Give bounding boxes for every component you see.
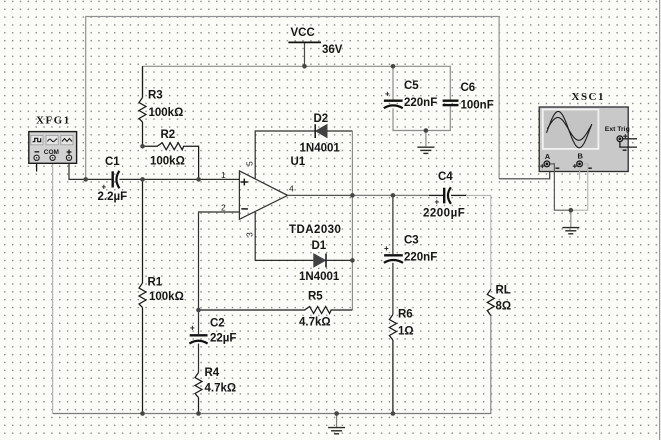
XFG1 button sine wave xyxy=(46,135,58,144)
svg-text:A: A xyxy=(545,152,551,161)
junction node bottom ground xyxy=(334,411,339,416)
svg-text:C6: C6 xyxy=(461,82,476,94)
capacitor C3 xyxy=(384,255,403,262)
svg-text:C2: C2 xyxy=(210,318,225,330)
wire C4 to RL xyxy=(451,194,467,196)
wire scope ground stub xyxy=(570,210,572,227)
XSC1 terminal A xyxy=(544,161,550,167)
junction node scope ground xyxy=(569,208,574,213)
diode D2 xyxy=(315,124,327,138)
wire pin1 input xyxy=(143,178,240,180)
resistor R4 xyxy=(195,373,202,414)
XSC1 waveform trace 2 xyxy=(547,118,591,141)
svg-text:4: 4 xyxy=(289,184,294,194)
wire bottom ground stub xyxy=(336,414,338,428)
svg-text:C1: C1 xyxy=(105,156,120,168)
svg-text:R5: R5 xyxy=(308,291,323,303)
XFG1 terminal labels xyxy=(35,151,40,153)
resistor R6 xyxy=(389,315,396,414)
svg-text:8Ω: 8Ω xyxy=(496,301,512,313)
wire C1 right to node xyxy=(120,178,143,180)
XSC1 screen xyxy=(543,110,599,149)
svg-text:2.2µF: 2.2µF xyxy=(98,191,128,203)
screen right edge border xyxy=(659,0,661,440)
wire D1 to output node xyxy=(326,259,352,261)
svg-text:R4: R4 xyxy=(205,367,220,379)
svg-text:22µF: 22µF xyxy=(210,333,236,345)
wire bottom rail xyxy=(53,413,492,415)
svg-text:RL: RL xyxy=(496,285,511,297)
svg-text:5: 5 xyxy=(245,161,255,166)
svg-text:B: B xyxy=(578,152,584,161)
junction node D1 xyxy=(350,258,355,263)
svg-text:VCC: VCC xyxy=(291,27,315,39)
wire ext trig plus stub xyxy=(623,138,637,140)
capacitor C5 xyxy=(384,101,403,109)
wire VCC drop xyxy=(304,42,306,66)
svg-text:100kΩ: 100kΩ xyxy=(149,291,184,303)
wire C3 drop xyxy=(392,195,394,254)
wire pin2 feedback xyxy=(199,212,240,310)
svg-text:C5: C5 xyxy=(404,80,419,92)
wire scope A to ground junction xyxy=(550,164,571,210)
svg-text:4.7kΩ: 4.7kΩ xyxy=(299,317,331,329)
wire VCC rail xyxy=(143,66,451,100)
wire output node vertical xyxy=(351,131,353,310)
svg-text:R1: R1 xyxy=(148,277,163,289)
wire pin5 to D2 xyxy=(255,131,314,179)
oscilloscope XSC1 box xyxy=(539,107,628,172)
svg-text:3: 3 xyxy=(245,232,255,237)
junction node bottom R1 xyxy=(140,411,145,416)
junction node R2 left xyxy=(140,144,145,149)
wire C2 to R4 xyxy=(198,310,200,335)
svg-text:U1: U1 xyxy=(291,156,306,168)
capacitor C6 xyxy=(443,101,459,105)
diode D1 xyxy=(314,254,326,268)
svg-text:4.7kΩ: 4.7kΩ xyxy=(205,383,237,395)
junction node R2 right xyxy=(196,177,201,182)
resistor R5 xyxy=(199,307,353,314)
XFG1 button triangle wave xyxy=(61,135,73,144)
resistor R3 xyxy=(139,66,146,146)
svg-text:1N4001: 1N4001 xyxy=(300,143,341,155)
svg-text:XFG1: XFG1 xyxy=(36,115,71,127)
capacitor C2 xyxy=(189,335,207,343)
XFG1 terminal COM xyxy=(50,155,55,160)
svg-text:+: + xyxy=(190,324,195,333)
XSC1 terminal B xyxy=(577,161,583,167)
capacitor C1 xyxy=(113,171,120,188)
svg-text:C4: C4 xyxy=(438,171,453,183)
ground below C5 C6 xyxy=(417,147,434,153)
resistor RL xyxy=(487,289,494,413)
wire C5 C6 bottom rail xyxy=(393,106,450,131)
svg-text:+: + xyxy=(384,244,389,253)
function generator XFG1 box xyxy=(29,132,77,164)
svg-text:220nF: 220nF xyxy=(404,252,437,264)
wire top rail xyxy=(86,17,499,180)
junction node C1 right xyxy=(140,177,145,182)
wire ext trig minus stub xyxy=(620,142,637,147)
svg-text:1Ω: 1Ω xyxy=(398,326,414,338)
svg-text:2200µF: 2200µF xyxy=(423,208,465,220)
junction node output xyxy=(350,193,355,198)
svg-text:100kΩ: 100kΩ xyxy=(150,156,185,168)
junction node R5 left xyxy=(196,308,201,313)
junction node bottom R6 xyxy=(391,411,396,416)
wire C3 to R6 xyxy=(392,263,394,315)
junction node C3 top xyxy=(391,193,396,198)
op-amp U1 xyxy=(239,171,287,219)
wire pin3 to D1 xyxy=(255,212,314,261)
svg-text:1N4001: 1N4001 xyxy=(299,271,340,283)
XFG1 terminal minus xyxy=(34,155,39,160)
svg-text:D2: D2 xyxy=(314,113,329,125)
svg-text:R2: R2 xyxy=(161,129,176,141)
svg-text:XSC1: XSC1 xyxy=(572,91,606,103)
wire scope B minus stub xyxy=(579,167,581,180)
capacitor C4 xyxy=(444,187,451,204)
svg-text:Ext Trig: Ext Trig xyxy=(605,126,630,133)
wire scope A lead-in xyxy=(499,166,550,179)
wire XFG plus to C1 xyxy=(69,160,112,179)
wire C5 top drop xyxy=(392,66,394,100)
wire XFG COM drop xyxy=(52,160,54,413)
svg-text:R6: R6 xyxy=(398,309,413,321)
XFG1 terminal plus xyxy=(66,155,71,160)
junction node C5 top xyxy=(391,64,396,69)
junction node input xyxy=(83,177,88,182)
XSC1 waveform trace 1 xyxy=(547,111,592,147)
svg-text:220nF: 220nF xyxy=(404,97,437,109)
svg-text:100kΩ: 100kΩ xyxy=(149,107,184,119)
VCC power symbol xyxy=(288,41,321,43)
ground scope xyxy=(562,228,579,234)
wire D2 to output node xyxy=(327,130,352,132)
resistor R1 xyxy=(139,179,146,413)
svg-text:D1: D1 xyxy=(312,240,327,252)
wire XFG minus stub xyxy=(36,160,38,171)
svg-text:+: + xyxy=(385,90,390,99)
resistor R2 xyxy=(143,143,199,180)
svg-text:+: + xyxy=(435,198,440,207)
svg-text:100nF: 100nF xyxy=(461,100,494,112)
svg-text:1: 1 xyxy=(221,170,226,180)
wire output horizontal xyxy=(288,194,353,196)
wire ground1 stub xyxy=(425,131,427,147)
junction node VCC xyxy=(302,64,307,69)
XSC1 ext trig terminal xyxy=(617,136,623,142)
junction node ground1 xyxy=(424,128,429,133)
XFG1 button square wave xyxy=(31,135,43,144)
wire scope B to ground junction xyxy=(571,164,588,210)
svg-text:36V: 36V xyxy=(322,44,343,56)
junction node bottom R4 xyxy=(196,411,201,416)
svg-text:C3: C3 xyxy=(404,235,419,247)
svg-text:TDA2030: TDA2030 xyxy=(289,224,341,236)
svg-text:R3: R3 xyxy=(148,90,163,102)
svg-text:2: 2 xyxy=(221,203,226,213)
ground bottom xyxy=(328,428,345,434)
